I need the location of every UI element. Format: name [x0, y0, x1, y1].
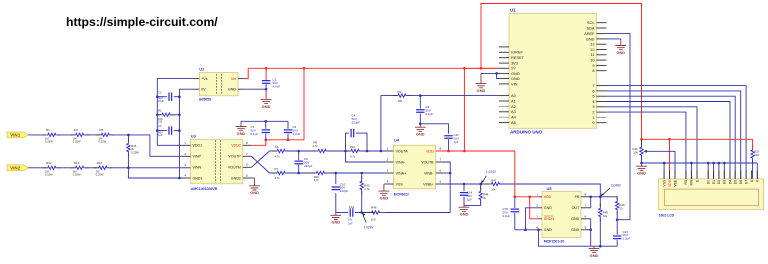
wire U4 VDD red	[443, 150, 515, 152]
svg-text:1µF: 1µF	[158, 133, 163, 137]
wire pot wiper to VEE	[649, 151, 675, 179]
resistor R14	[94, 167, 99, 169]
node aref junction	[616, 218, 619, 221]
capacitor C7	[265, 121, 267, 129]
node junction GND1 rail	[178, 177, 181, 180]
pin stubs U2	[193, 78, 199, 80]
svg-text:GND: GND	[331, 220, 340, 225]
svg-text:0.1µF: 0.1µF	[251, 132, 259, 136]
svg-text:1W: 1W	[158, 120, 162, 124]
capacitor C2	[157, 96, 167, 98]
svg-text:VIN: VIN	[511, 81, 518, 86]
svg-text:4.7k: 4.7k	[350, 154, 356, 158]
svg-text:0.25W: 0.25W	[96, 172, 104, 176]
wire 5V rail into arduino	[464, 67, 499, 69]
wire VSS drop	[663, 163, 665, 179]
wire R7 to C6	[287, 172, 315, 174]
svg-text:VIN1: VIN1	[10, 133, 21, 138]
svg-text:VOUTM: VOUTM	[228, 166, 241, 170]
svg-text:100: 100	[371, 218, 376, 222]
wire R47 to 2.048V node	[500, 184, 600, 197]
svg-text:VDD2: VDD2	[231, 144, 241, 148]
svg-text:R14: R14	[97, 161, 103, 165]
svg-text:R13: R13	[74, 161, 80, 165]
svg-text:RS: RS	[684, 179, 688, 184]
resistor R40	[361, 173, 363, 180]
wire 5V riser to top rail	[481, 4, 642, 140]
resistor R17 backlight	[752, 145, 754, 150]
ground U3 GND2	[249, 178, 260, 190]
resistor R1	[43, 134, 48, 136]
svg-text:GND: GND	[460, 212, 469, 217]
svg-text:GND1: GND1	[193, 176, 203, 180]
svg-text:VDD1: VDD1	[193, 144, 203, 148]
wire D1 drop	[713, 163, 715, 179]
pin stubs U4 right	[436, 150, 443, 152]
resistor R48	[480, 184, 482, 190]
svg-text:13: 13	[590, 42, 594, 47]
wire lcd vdd red	[642, 139, 670, 179]
svg-text:6: 6	[592, 88, 594, 93]
svg-text:GND: GND	[544, 206, 552, 210]
annotation 1.024V left	[363, 215, 366, 222]
svg-text:R10: R10	[350, 145, 356, 149]
resistor R10 feedback	[346, 150, 351, 152]
svg-text:VINA-: VINA-	[396, 160, 406, 164]
svg-text:10µF: 10µF	[158, 99, 165, 103]
wire VDD2 to rail	[251, 140, 265, 146]
resistor R30	[311, 172, 316, 174]
svg-text:GND: GND	[511, 76, 520, 81]
svg-text:R45: R45	[603, 210, 609, 214]
wire R8 to fb node	[328, 150, 350, 152]
svg-text:4.7k: 4.7k	[313, 144, 319, 148]
svg-text:2.2µF: 2.2µF	[503, 214, 511, 218]
svg-text:10: 10	[619, 207, 622, 211]
svg-text:R1: R1	[46, 128, 50, 132]
svg-text:VOUTA: VOUTA	[396, 149, 409, 153]
pin stubs U1 left	[499, 46, 509, 48]
resistor R4	[70, 134, 75, 136]
svg-text:RW: RW	[690, 179, 694, 185]
svg-text:U5: U5	[547, 186, 553, 191]
svg-text:R6: R6	[275, 145, 279, 149]
svg-text:9: 9	[592, 63, 594, 68]
svg-text:D7: D7	[744, 180, 748, 184]
svg-text:GND: GND	[616, 50, 625, 55]
capacitor C4 feedback	[346, 133, 350, 151]
svg-text:D1: D1	[712, 180, 716, 184]
svg-text:A5: A5	[511, 120, 516, 125]
wire SHDN tie red	[530, 197, 539, 219]
svg-text:220pF: 220pF	[352, 120, 361, 124]
svg-text:SCL: SCL	[587, 20, 595, 25]
resistor R49 aref	[616, 197, 618, 200]
svg-text:VOUTP: VOUTP	[228, 155, 241, 159]
svg-text:2.048V: 2.048V	[611, 184, 622, 188]
wire top row to R6	[270, 150, 276, 152]
wire VOUTP crossover	[251, 156, 269, 173]
svg-text:D3: D3	[723, 180, 727, 184]
svg-text:100: 100	[754, 153, 759, 157]
capacitor C9	[419, 96, 421, 109]
svg-text:1: 1	[592, 115, 594, 120]
svg-text:0.25W: 0.25W	[45, 172, 53, 176]
wire R5 to node	[111, 134, 129, 136]
annotation 1.024V right	[483, 176, 486, 182]
resistor R2	[157, 114, 160, 116]
ground C14	[459, 206, 470, 212]
svg-text:12: 12	[590, 47, 594, 52]
svg-text:10k: 10k	[491, 187, 496, 191]
svg-text:VINA+: VINA+	[396, 171, 407, 175]
svg-text:VEE: VEE	[673, 179, 677, 187]
svg-text:4.7k: 4.7k	[275, 176, 281, 180]
resistor R47	[486, 183, 491, 185]
svg-text:ARDUINO UNO: ARDUINO UNO	[510, 129, 543, 134]
wire U3 GND2 to ground	[251, 177, 254, 179]
svg-text:GND: GND	[590, 253, 599, 258]
wire 5V main rail	[248, 67, 499, 69]
svg-text:GND: GND	[544, 228, 552, 232]
svg-text:U4: U4	[394, 138, 400, 143]
svg-text:5: 5	[592, 94, 594, 99]
svg-text:MCP6022: MCP6022	[394, 192, 409, 196]
svg-text:3: 3	[592, 104, 594, 109]
node C1 gnd junction	[265, 88, 268, 91]
resistor R13	[70, 167, 75, 169]
wire R1-R4	[57, 134, 74, 136]
svg-text:GND: GND	[250, 190, 259, 195]
svg-text:A2: A2	[511, 104, 516, 109]
svg-text:U3: U3	[191, 134, 197, 139]
capacitor C16	[616, 220, 618, 235]
ground arduino right	[615, 39, 626, 50]
svg-text:SDA: SDA	[587, 25, 595, 30]
svg-text:R40: R40	[364, 184, 370, 188]
svg-text:VDD: VDD	[544, 195, 552, 199]
resistor R7	[272, 172, 277, 174]
svg-text:GND: GND	[262, 104, 271, 109]
svg-text:8: 8	[592, 68, 594, 73]
svg-text:RESET: RESET	[511, 55, 525, 60]
svg-text:2.2µF: 2.2µF	[623, 237, 631, 241]
svg-text:VSS: VSS	[662, 179, 666, 187]
svg-text:R9: R9	[398, 90, 402, 94]
wire arduino gnd pins	[481, 72, 499, 74]
svg-text:R17: R17	[754, 149, 760, 153]
wire gnd drop to bus	[539, 230, 591, 246]
svg-text:GND: GND	[228, 88, 236, 92]
svg-text:AREF: AREF	[584, 31, 595, 36]
wire VINB+ line	[443, 183, 489, 185]
resistor R6	[272, 150, 277, 152]
svg-text:U1: U1	[510, 7, 516, 12]
svg-text:B0505S: B0505S	[199, 98, 212, 102]
resistor R8	[313, 150, 318, 152]
pin stubs U3 right	[243, 144, 252, 146]
wire R9 to A0	[407, 95, 499, 97]
svg-text:GND: GND	[637, 171, 646, 176]
potentiometer R16	[641, 139, 643, 146]
svg-text:R7: R7	[275, 167, 279, 171]
ground C1	[261, 89, 272, 103]
wire 5V branch to VDD2 rail	[303, 68, 305, 140]
capacitor C15	[514, 197, 516, 208]
annotation 2.048V	[602, 188, 609, 195]
svg-text:0.1µF: 0.1µF	[426, 112, 434, 116]
capacitor C6 differential	[298, 151, 300, 160]
svg-text:R12: R12	[46, 161, 52, 165]
wire 5V branch to op-amp VDD	[463, 68, 465, 151]
svg-text:R5: R5	[100, 128, 104, 132]
capacitor C5	[157, 130, 167, 132]
pin stubs U5 left	[539, 196, 543, 198]
svg-text:R49: R49	[619, 203, 625, 207]
wire gnd bus U5	[591, 245, 618, 247]
isolation amplifier U3	[191, 139, 243, 184]
node VINB- join	[443, 172, 450, 174]
wire VIN2 row	[28, 167, 46, 169]
wire lcd gnd bus	[642, 162, 758, 164]
wire pin2 to LCD RS	[607, 112, 686, 179]
wire red to R17	[670, 138, 753, 140]
wire K drop	[756, 163, 758, 179]
svg-text:VINP: VINP	[193, 155, 202, 159]
svg-text:D4: D4	[728, 180, 732, 184]
wire R13-R14	[85, 167, 97, 169]
wire R14 to VINN	[108, 167, 182, 169]
lcd module 1602	[658, 179, 763, 210]
svg-text:1µF: 1µF	[467, 197, 472, 201]
voltage reference U5	[542, 192, 581, 238]
ground U4 VSS	[384, 183, 386, 185]
wire 2.048V node line	[591, 196, 618, 198]
svg-text:A1: A1	[511, 98, 516, 103]
svg-text:SHDN: SHDN	[544, 217, 555, 221]
svg-text:R46: R46	[371, 206, 377, 210]
svg-text:GND: GND	[237, 131, 246, 136]
svg-text:11: 11	[590, 52, 594, 57]
pin stubs LCD	[663, 171, 665, 179]
svg-text:D5: D5	[734, 180, 738, 184]
wire 0V rail right	[179, 89, 193, 178]
svg-text:VINB+: VINB+	[423, 182, 434, 186]
ground decoupling caps	[236, 121, 247, 130]
ground arduino left	[476, 73, 487, 87]
svg-text:100: 100	[398, 99, 403, 103]
arduino U1	[509, 14, 597, 129]
svg-text:VDD: VDD	[668, 179, 672, 187]
wire U5 pin2 gnd loop	[526, 208, 539, 230]
svg-text:2: 2	[592, 110, 594, 115]
capacitor C14	[463, 184, 465, 191]
pin stubs U1 right	[597, 22, 607, 24]
pin stubs U3 left	[183, 144, 191, 146]
wire to VOUTA pin	[361, 150, 386, 152]
node VIN1 flag	[7, 132, 28, 138]
wire VOUTB feedback loop	[443, 162, 450, 213]
svg-text:Vin: Vin	[231, 77, 236, 81]
svg-text:GND: GND	[477, 88, 486, 93]
wire VOUTA riser to A0 line	[381, 96, 397, 151]
svg-text:7: 7	[592, 83, 594, 88]
svg-text:0.25W: 0.25W	[99, 139, 107, 143]
svg-text:10k: 10k	[603, 214, 608, 218]
svg-text:AMC1301DWVR: AMC1301DWVR	[191, 187, 218, 191]
wire +Vo rail left	[157, 79, 193, 146]
pin stubs U5 right	[581, 196, 591, 198]
node junction VIN1 divider	[127, 134, 130, 137]
svg-text:VDD: VDD	[426, 149, 434, 153]
svg-text:GND: GND	[380, 196, 389, 201]
svg-text:220pF: 220pF	[340, 189, 349, 193]
svg-text:https://simple-circuit.com/: https://simple-circuit.com/	[66, 15, 218, 29]
svg-text:1602 LCD: 1602 LCD	[659, 213, 675, 217]
wire R4-R5	[85, 134, 100, 136]
svg-text:OUT: OUT	[572, 206, 580, 210]
capacitor C10	[335, 173, 337, 184]
wire to AREF	[607, 34, 631, 220]
resistor R9	[393, 95, 398, 97]
svg-text:GND: GND	[586, 36, 595, 41]
svg-text:D6: D6	[739, 180, 743, 184]
svg-text:0V: 0V	[201, 88, 206, 92]
op-amp U4	[394, 145, 436, 189]
wire gnd line above decoupling caps	[241, 120, 288, 122]
svg-text:GND: GND	[571, 228, 579, 232]
wire C15 gnd line	[515, 229, 539, 231]
wire D2 drop	[718, 163, 720, 179]
wire pin5 to LCD D5	[607, 96, 736, 179]
svg-text:IOREF: IOREF	[511, 50, 524, 55]
svg-text:1.024V: 1.024V	[486, 170, 497, 174]
wire VIN2 node down to GND1 line	[128, 168, 182, 178]
svg-text:0.25W: 0.25W	[73, 139, 81, 143]
svg-text:C5: C5	[158, 124, 162, 128]
svg-text:GND: GND	[571, 217, 579, 221]
wire U2 GND to C1 gnd node	[245, 88, 266, 90]
resistor R5	[96, 134, 101, 136]
pin stubs U4 left	[386, 150, 394, 152]
svg-text:VINB-: VINB-	[424, 171, 434, 175]
svg-text:FB: FB	[575, 195, 580, 199]
wire C9 gnd to C11	[420, 124, 448, 134]
wire D0 drop	[707, 163, 709, 179]
ground C10	[330, 213, 341, 220]
wire VDD2 decoupling rail	[266, 139, 304, 141]
svg-text:10k: 10k	[633, 151, 638, 155]
wire pin6 to LCD D6	[607, 91, 741, 179]
svg-text:R48: R48	[483, 193, 489, 197]
wire D3 drop	[723, 163, 725, 179]
svg-text:R8: R8	[314, 141, 318, 145]
resistor R12	[43, 167, 48, 169]
wire U2 Vin to 5V rail	[245, 68, 248, 78]
svg-text:+Vs: +Vs	[201, 77, 207, 81]
wire node to VINP	[128, 135, 182, 156]
wire R46 to op-amp B output loop	[385, 212, 450, 214]
capacitor C12	[350, 208, 353, 216]
svg-text:VSS: VSS	[396, 182, 404, 186]
svg-text:GND: GND	[416, 132, 425, 137]
svg-text:A3: A3	[511, 109, 516, 114]
resistor R46	[366, 212, 371, 214]
svg-text:A4: A4	[511, 115, 517, 120]
wire pin7 to LCD D7	[607, 86, 747, 179]
wire VOUTN crossover	[251, 151, 269, 167]
svg-text:1.024V: 1.024V	[364, 225, 375, 229]
resistor R15	[127, 135, 129, 142]
wire R30 to VINA+	[326, 172, 386, 174]
ground U5 bus	[589, 246, 600, 252]
wire R12-R13	[57, 167, 74, 169]
ground C9	[415, 124, 426, 132]
dc-dc converter U2	[199, 73, 238, 96]
wire gnd to C12	[336, 212, 348, 214]
ground lcd bus	[640, 162, 643, 165]
svg-text:VIN2: VIN2	[10, 166, 21, 171]
svg-text:220pF: 220pF	[304, 164, 313, 168]
wire pin4 to LCD D4	[607, 102, 731, 180]
wire arduino right gnd	[607, 38, 621, 40]
wire bottom row to R7	[270, 172, 276, 174]
svg-text:0.25W: 0.25W	[73, 172, 81, 176]
svg-text:1nF: 1nF	[348, 222, 353, 226]
wire VIN1 row	[28, 134, 46, 136]
svg-text:4.7µF: 4.7µF	[273, 84, 281, 88]
node VIN2 flag	[7, 165, 28, 171]
svg-text:VINN: VINN	[193, 166, 202, 170]
svg-text:A0: A0	[511, 93, 517, 98]
svg-text:1µF: 1µF	[454, 140, 459, 144]
wire fb node down to VINA-	[346, 151, 386, 162]
svg-text:MCP1501-20: MCP1501-20	[544, 239, 565, 243]
wire FB OUT tie	[590, 197, 592, 208]
node C9 gnd	[419, 123, 422, 126]
svg-text:C12: C12	[349, 205, 355, 209]
svg-text:U2: U2	[199, 66, 205, 71]
svg-text:VOUTB: VOUTB	[421, 160, 434, 164]
wire 5V to U5 VDD	[515, 151, 539, 197]
svg-text:0.25W: 0.25W	[45, 139, 53, 143]
svg-text:4.7k: 4.7k	[314, 178, 320, 182]
resistor R45	[599, 197, 601, 207]
wire C12 to R46	[355, 212, 374, 214]
svg-text:4.7k: 4.7k	[275, 154, 281, 158]
wire RW drop	[690, 163, 692, 179]
wire R6 to C6 node	[287, 150, 317, 152]
svg-text:R4: R4	[74, 128, 78, 132]
svg-text:GND2: GND2	[231, 176, 241, 180]
node junction VIN2	[127, 167, 130, 170]
capacitor C3	[287, 121, 289, 129]
wire U5 gnd pins to bus	[590, 219, 592, 246]
wire pin3 to LCD E	[607, 107, 698, 179]
capacitor C1	[265, 68, 267, 80]
svg-text:0.25W: 0.25W	[131, 150, 139, 154]
svg-text:4.7k: 4.7k	[364, 187, 370, 191]
svg-text:C2: C2	[158, 90, 162, 94]
capacitor C11	[444, 136, 452, 139]
svg-text:D0: D0	[707, 180, 711, 184]
svg-text:R2: R2	[158, 108, 162, 112]
svg-text:D2: D2	[717, 180, 721, 184]
svg-text:R16: R16	[633, 147, 639, 151]
svg-text:R47: R47	[491, 178, 497, 182]
svg-text:4.7µF: 4.7µF	[293, 132, 301, 136]
wire R48 C14 gnd tie	[464, 205, 481, 207]
